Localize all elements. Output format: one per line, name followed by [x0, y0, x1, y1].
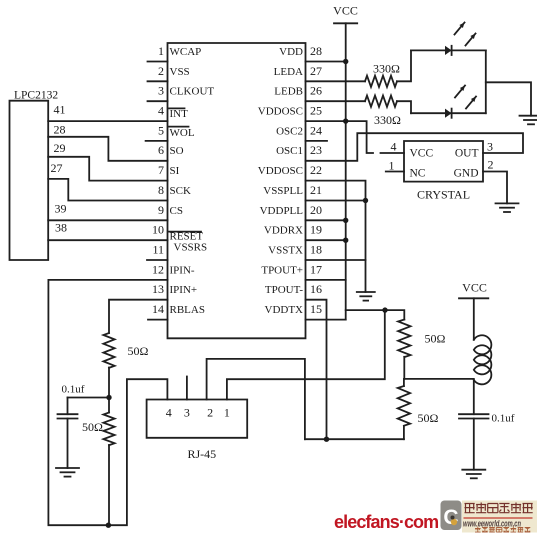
svg-text:29: 29	[54, 141, 66, 155]
svg-text:GND: GND	[454, 168, 479, 180]
svg-text:elecfans·com: elecfans·com	[334, 512, 438, 532]
svg-text:21: 21	[310, 183, 322, 197]
svg-text:50Ω: 50Ω	[425, 332, 446, 346]
svg-text:12: 12	[152, 262, 164, 276]
svg-text:14: 14	[152, 302, 164, 316]
svg-text:0.1uf: 0.1uf	[62, 384, 85, 396]
svg-text:IPIN+: IPIN+	[170, 284, 198, 296]
svg-text:41: 41	[54, 103, 66, 117]
svg-text:SCK: SCK	[170, 185, 191, 197]
svg-text:INT: INT	[170, 108, 189, 120]
svg-text:50Ω: 50Ω	[82, 420, 103, 434]
svg-text:LEDB: LEDB	[274, 86, 303, 98]
svg-text:22: 22	[310, 163, 322, 177]
svg-text:39: 39	[55, 201, 67, 215]
svg-text:5: 5	[158, 123, 164, 137]
svg-text:OSC2: OSC2	[276, 125, 303, 137]
svg-text:25: 25	[310, 104, 322, 118]
svg-text:7: 7	[158, 163, 164, 177]
svg-text:38: 38	[55, 221, 67, 235]
svg-text:15: 15	[310, 302, 322, 316]
svg-text:26: 26	[310, 84, 322, 98]
svg-text:50Ω: 50Ω	[128, 344, 149, 358]
svg-text:TPOUT+: TPOUT+	[261, 264, 303, 276]
svg-text:19: 19	[310, 223, 322, 237]
svg-text:RBLAS: RBLAS	[170, 304, 205, 316]
svg-text:9: 9	[158, 203, 164, 217]
svg-text:17: 17	[310, 262, 322, 276]
svg-text:RJ-45: RJ-45	[188, 447, 217, 461]
svg-text:4: 4	[391, 140, 397, 154]
svg-text:8: 8	[158, 183, 164, 197]
svg-text:0.1uf: 0.1uf	[492, 413, 515, 425]
svg-text:330Ω: 330Ω	[374, 113, 401, 127]
svg-text:VCC: VCC	[333, 4, 358, 18]
svg-text:20: 20	[310, 203, 322, 217]
svg-text:WOL: WOL	[170, 127, 195, 139]
svg-text:1: 1	[389, 159, 395, 173]
svg-text:VDDPLL: VDDPLL	[260, 205, 304, 217]
svg-text:VDDTX: VDDTX	[265, 304, 304, 316]
svg-text:3: 3	[158, 84, 164, 98]
svg-text:4: 4	[158, 104, 164, 118]
svg-text:VSSRS: VSSRS	[174, 241, 208, 253]
svg-text:28: 28	[54, 123, 66, 137]
svg-text:IPIN-: IPIN-	[170, 264, 195, 276]
svg-text:3: 3	[184, 406, 190, 420]
svg-text:16: 16	[310, 282, 322, 296]
svg-text:2: 2	[488, 158, 494, 172]
svg-text:CS: CS	[170, 205, 183, 217]
svg-text:18: 18	[310, 243, 322, 257]
svg-text:3: 3	[487, 140, 493, 154]
svg-text:VDD: VDD	[279, 46, 303, 58]
svg-text:CRYSTAL: CRYSTAL	[417, 188, 470, 202]
svg-text:330Ω: 330Ω	[373, 62, 400, 76]
svg-text:27: 27	[310, 64, 322, 78]
svg-text:6: 6	[158, 143, 164, 157]
svg-text:24: 24	[310, 123, 322, 137]
svg-text:28: 28	[310, 44, 322, 58]
svg-text:SO: SO	[170, 145, 184, 157]
svg-text:LPC2132: LPC2132	[14, 89, 58, 101]
svg-text:WCAP: WCAP	[170, 46, 202, 58]
svg-text:VDDOSC: VDDOSC	[258, 165, 303, 177]
svg-text:2: 2	[158, 64, 164, 78]
svg-text:OSC1: OSC1	[276, 145, 303, 157]
svg-text:4: 4	[166, 406, 172, 420]
svg-text:1: 1	[158, 44, 164, 58]
svg-text:VSS: VSS	[170, 66, 190, 78]
svg-text:10: 10	[152, 223, 164, 237]
svg-text:11: 11	[152, 243, 164, 257]
svg-text:VDDOSC: VDDOSC	[258, 106, 303, 118]
svg-text:OUT: OUT	[455, 148, 479, 160]
svg-text:VDDRX: VDDRX	[264, 225, 303, 237]
svg-text:VSSPLL: VSSPLL	[263, 185, 303, 197]
svg-text:NC: NC	[410, 168, 426, 180]
svg-text:LEDA: LEDA	[274, 66, 303, 78]
svg-text:VSSTX: VSSTX	[268, 245, 303, 257]
svg-text:50Ω: 50Ω	[418, 411, 439, 425]
svg-text:2: 2	[207, 406, 213, 420]
svg-text:VCC: VCC	[410, 148, 434, 160]
svg-text:13: 13	[152, 282, 164, 296]
svg-text:CLKOUT: CLKOUT	[170, 86, 215, 98]
svg-text:TPOUT-: TPOUT-	[265, 284, 303, 296]
svg-text:27: 27	[51, 161, 63, 175]
svg-text:23: 23	[310, 143, 322, 157]
svg-text:SI: SI	[170, 165, 180, 177]
svg-text:1: 1	[224, 406, 230, 420]
svg-text:VCC: VCC	[462, 281, 487, 295]
